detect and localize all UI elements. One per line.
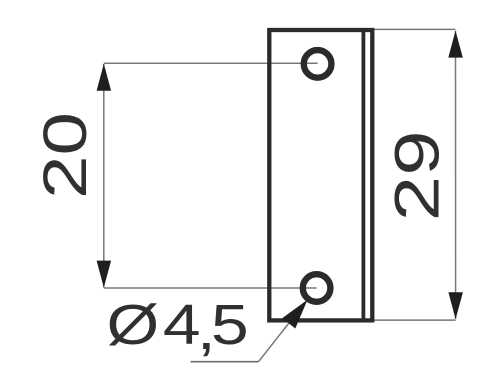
arrowhead 29 bottom [448, 292, 463, 319]
arrowhead 20 top [97, 64, 112, 91]
hole top [304, 50, 332, 78]
bend line (inner vertical line near right edge) [361, 28, 365, 322]
plate outline [269, 30, 372, 320]
svg-text:20: 20 [30, 112, 99, 199]
leader arrowhead [282, 300, 307, 329]
arrowhead 20 bottom [97, 261, 112, 288]
svg-text:Ø4,5: Ø4,5 [107, 294, 249, 361]
extension line 29 bottom [373, 319, 456, 321]
leader diagonal line [259, 309, 301, 362]
dimension line 29 [455, 31, 457, 319]
hole bottom [303, 274, 331, 302]
extension line 29 top [373, 28, 456, 30]
extension line top (to top hole center) [104, 62, 318, 64]
leader landing line (under text) [191, 361, 259, 363]
arrowhead 29 top [448, 31, 463, 58]
extension line bottom (to bottom hole center) [104, 287, 317, 289]
svg-text:29: 29 [382, 130, 452, 221]
dimension line 20 [103, 64, 105, 288]
